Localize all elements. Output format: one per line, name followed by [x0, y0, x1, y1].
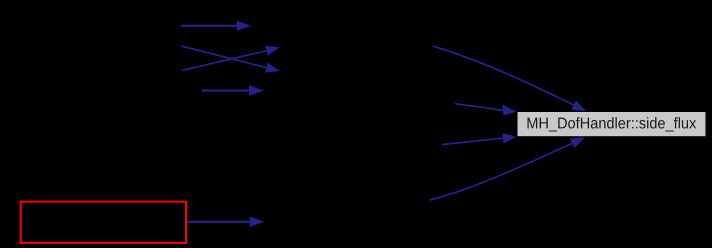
- wire: edge M4 to side_flux (lower straight H): [442, 133, 517, 145]
- wire: curved edge M5 to side_flux (bottom curve I): [430, 137, 585, 200]
- wire: edge L1 to M1 (arrow A): [181, 21, 251, 31]
- wire: edge M2 to side_flux (upper straight G): [455, 104, 517, 116]
- wire: edge L4 to M4 (arrow D): [202, 85, 264, 96]
- wire: curved edge M1 to side_flux (top curve F): [433, 46, 587, 111]
- node truncated caller (red border box, label invisible on black): [21, 202, 186, 243]
- wire: edge L2 to M3 (arrow B, crossing down): [181, 46, 279, 73]
- wire: edge red node to M5 (arrow E): [187, 217, 264, 228]
- wire: edge L3 to M2 (arrow C, crossing up): [182, 46, 279, 71]
- node MH_DofHandler::side_flux (gray current node): [517, 112, 706, 137]
